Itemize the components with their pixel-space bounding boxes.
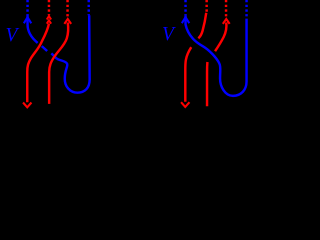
svg-text:V: V (6, 25, 20, 46)
svg-text:V: V (162, 24, 176, 45)
